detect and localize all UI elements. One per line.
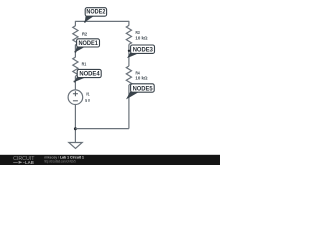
resistor R1: [73, 57, 87, 76]
wire left below V1 down to ground: [74, 105, 76, 143]
svg-text:NODE2: NODE2: [86, 10, 106, 16]
svg-text:10 kΩ: 10 kΩ: [135, 76, 147, 81]
wire right between R3 and R4: [128, 44, 130, 66]
node dot NODE3 attach: [128, 50, 130, 52]
node flag NODE3: [127, 45, 155, 58]
resistor R4: [126, 66, 148, 85]
ground: [69, 143, 82, 149]
svg-text:10 kΩ: 10 kΩ: [135, 36, 147, 41]
svg-text:NODE4: NODE4: [79, 72, 100, 78]
svg-text:NODE1: NODE1: [78, 41, 98, 47]
svg-text:http://circuitlab.com/c/nN2v5: http://circuitlab.com/c/nN2v5: [44, 160, 76, 164]
wire right below R4: [128, 85, 130, 129]
junction dot bottom-left node: [74, 127, 77, 130]
svg-text:NODE5: NODE5: [133, 86, 154, 92]
svg-text:R1: R1: [82, 62, 87, 67]
watermark bar: [0, 155, 220, 165]
svg-text:LAB: LAB: [25, 160, 34, 165]
node flag NODE2: [84, 8, 107, 23]
node flag NODE5: [126, 84, 154, 100]
node flag NODE1: [74, 39, 99, 53]
svg-text:R3: R3: [136, 30, 141, 35]
wire top horizontal: [75, 20, 128, 22]
svg-text:V1: V1: [86, 92, 90, 97]
wire right upper lead: [128, 21, 130, 26]
CircuitLab logo wire glyph and LAB: [13, 160, 34, 165]
node flag NODE4: [74, 69, 102, 82]
wire bottom horizontal: [75, 128, 128, 130]
wire left between R2 and R1: [74, 45, 76, 58]
svg-text:R2: R2: [82, 32, 88, 37]
svg-text:NODE3: NODE3: [133, 47, 154, 53]
wire left upper lead: [74, 21, 76, 26]
resistor R2: [73, 26, 88, 45]
CircuitLab logo text CIRCUIT: [13, 156, 35, 162]
resistor R3: [126, 25, 148, 44]
svg-text:5 V: 5 V: [85, 98, 90, 103]
wire left between R1 and V1: [74, 76, 76, 90]
watermark title text: [44, 156, 84, 164]
voltage source V1: [68, 90, 91, 105]
